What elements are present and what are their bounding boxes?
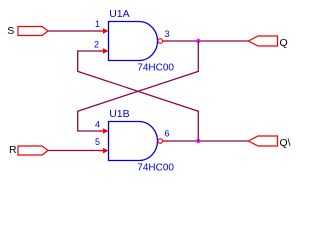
port Q <box>248 36 287 49</box>
wire U1A.3 to Q <box>168 40 249 42</box>
svg-text:4: 4 <box>95 119 100 129</box>
pin 3 of U1A (output stub) <box>163 29 170 41</box>
wire Q feedback to U1B pin 4 <box>78 41 199 131</box>
node Q junction <box>196 39 200 43</box>
svg-text:74HC00: 74HC00 <box>137 162 174 173</box>
svg-text:5: 5 <box>95 137 100 147</box>
pin 4 of U1B <box>95 119 108 134</box>
svg-text:U1A: U1A <box>109 8 129 20</box>
pin 6 of U1B (output stub) <box>163 129 170 141</box>
NAND gate U1A <box>109 8 175 74</box>
svg-text:2: 2 <box>94 40 99 50</box>
wire S to U1A pin 1 <box>48 30 100 32</box>
node Q\ junction <box>196 139 200 143</box>
svg-text:R: R <box>9 144 17 156</box>
pin 1 of U1A <box>95 19 108 34</box>
wire Q\ feedback to U1A pin 2 <box>78 51 199 141</box>
port S <box>7 25 48 37</box>
pin 2 of U1A <box>94 40 108 54</box>
svg-text:S: S <box>7 25 14 37</box>
svg-text:U1B: U1B <box>109 108 129 120</box>
NAND gate U1B <box>109 108 175 174</box>
wire U1B.6 to Q\ <box>168 140 249 142</box>
port R <box>9 144 48 156</box>
wire R to U1B pin 5 <box>48 150 100 152</box>
pin 5 of U1B <box>95 137 108 153</box>
svg-text:6: 6 <box>165 129 170 139</box>
port Q\ <box>248 136 290 149</box>
svg-text:74HC00: 74HC00 <box>137 62 174 73</box>
svg-text:3: 3 <box>165 29 170 39</box>
svg-text:Q\: Q\ <box>280 137 291 149</box>
svg-text:1: 1 <box>95 19 100 29</box>
svg-text:Q: Q <box>280 37 288 49</box>
